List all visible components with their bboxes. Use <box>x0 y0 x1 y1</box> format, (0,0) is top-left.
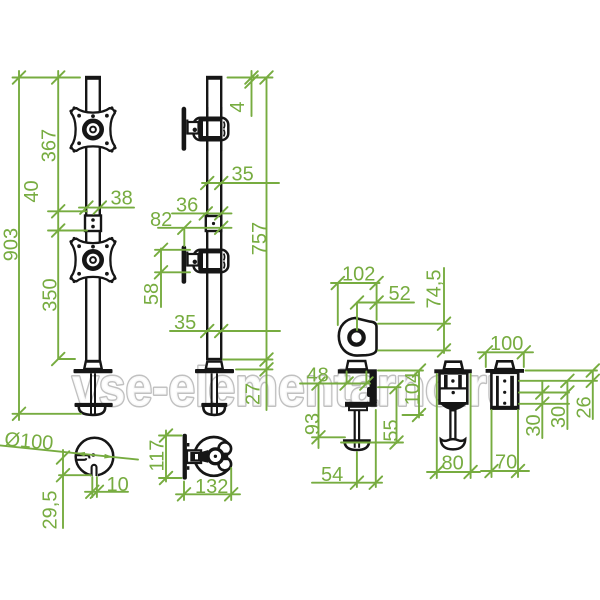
svg-text:35: 35 <box>232 164 254 186</box>
svg-text:54: 54 <box>321 464 343 486</box>
svg-text:70: 70 <box>495 452 517 474</box>
svg-text:10: 10 <box>107 474 129 496</box>
svg-text:367: 367 <box>39 129 61 162</box>
svg-text:132: 132 <box>195 476 228 498</box>
svg-text:38: 38 <box>111 188 133 210</box>
svg-text:4: 4 <box>227 101 249 112</box>
svg-text:757: 757 <box>249 222 271 255</box>
svg-text:100: 100 <box>490 333 523 355</box>
svg-text:80: 80 <box>442 453 464 475</box>
svg-text:35: 35 <box>174 312 196 334</box>
svg-text:40: 40 <box>21 180 43 202</box>
svg-text:82: 82 <box>150 209 172 231</box>
svg-text:104: 104 <box>402 372 424 405</box>
svg-text:30: 30 <box>523 414 545 436</box>
svg-text:26: 26 <box>573 396 595 418</box>
svg-text:27: 27 <box>243 383 265 405</box>
svg-text:74,5: 74,5 <box>424 270 446 309</box>
svg-text:117: 117 <box>147 440 169 472</box>
svg-text:30: 30 <box>548 406 570 428</box>
svg-text:58: 58 <box>141 283 163 305</box>
svg-text:350: 350 <box>40 278 62 311</box>
svg-text:36: 36 <box>176 195 198 217</box>
svg-text:Ø100: Ø100 <box>4 429 55 455</box>
svg-text:29,5: 29,5 <box>40 491 62 530</box>
svg-text:52: 52 <box>389 283 411 305</box>
svg-text:102: 102 <box>342 264 375 286</box>
svg-text:55: 55 <box>381 419 403 441</box>
svg-text:903: 903 <box>1 228 23 261</box>
svg-text:93: 93 <box>302 413 324 435</box>
